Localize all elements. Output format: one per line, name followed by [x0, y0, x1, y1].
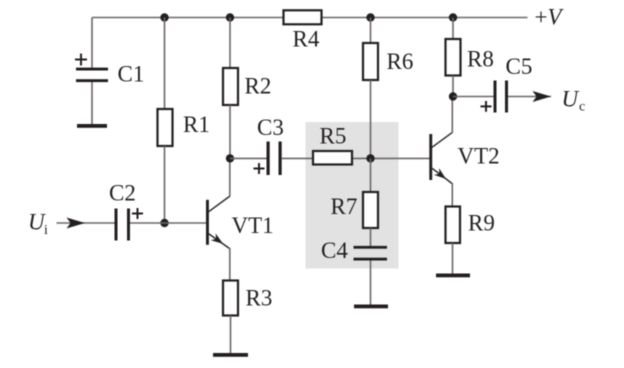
- wire R2 top lead: [229, 18, 231, 69]
- ground (R3): [213, 353, 248, 357]
- resistor R2: [223, 68, 238, 105]
- svg-text:i: i: [44, 223, 48, 238]
- resistor R5: [313, 151, 352, 165]
- label C3: [257, 115, 284, 140]
- wire R3 bottom lead: [230, 316, 232, 354]
- wire R6 bottom lead: [370, 80, 372, 158]
- node junction VT1 base / R1: [160, 219, 168, 227]
- ground (C4): [354, 305, 388, 309]
- resistor R7: [363, 192, 378, 228]
- label C1: [118, 62, 145, 87]
- svg-text:U: U: [562, 87, 580, 112]
- ground (R9): [436, 274, 470, 278]
- label R7: [331, 194, 358, 219]
- wire VT1 collector up: [229, 158, 231, 196]
- wire VT1 emitter down: [229, 248, 231, 281]
- svg-text:R1: R1: [183, 112, 210, 137]
- label VT2: [458, 144, 500, 169]
- label R3: [246, 286, 273, 311]
- resistor R6: [363, 43, 378, 80]
- svg-text:R5: R5: [320, 124, 347, 149]
- svg-text:R3: R3: [246, 286, 273, 311]
- wire R7 top lead: [370, 158, 372, 192]
- wire R6 top lead: [370, 18, 372, 44]
- svg-text:C1: C1: [118, 62, 145, 87]
- label R9: [468, 211, 495, 236]
- wire R1 bottom lead: [164, 146, 166, 223]
- svg-text:C5: C5: [506, 54, 533, 79]
- wire C4 bottom lead: [370, 261, 372, 305]
- node junction R5/R6/R7: [366, 154, 374, 162]
- svg-text:R2: R2: [245, 74, 272, 99]
- label C2: [109, 181, 136, 206]
- svg-text:c: c: [579, 100, 585, 115]
- label R2: [245, 74, 272, 99]
- svg-text:VT1: VT1: [232, 213, 274, 238]
- wire C3 to R5 and on to VT2 base: [282, 157, 430, 159]
- ground (C1): [77, 124, 107, 128]
- resistor R9: [446, 207, 461, 244]
- capacitor C3: [254, 142, 282, 176]
- label Uc: [562, 87, 586, 115]
- resistor R3: [223, 281, 238, 316]
- wire C1 top lead: [91, 18, 93, 69]
- label VT1: [232, 213, 274, 238]
- label R6: [387, 49, 414, 74]
- wire R9 bottom lead: [452, 243, 454, 274]
- transistor VT1: [206, 196, 230, 249]
- wire R7 to C4: [370, 228, 372, 246]
- node junction R6/top rail: [366, 13, 374, 21]
- label R5: [320, 124, 347, 149]
- label C5: [506, 54, 533, 79]
- svg-text:+V: +V: [535, 5, 565, 30]
- node junction R1/top rail: [160, 13, 168, 21]
- capacitor C2: [115, 208, 144, 241]
- svg-text:R7: R7: [331, 194, 358, 219]
- node junction R2/top rail: [226, 13, 234, 21]
- svg-text:R6: R6: [387, 49, 414, 74]
- resistor R1: [158, 109, 173, 146]
- wire VT2 collector up: [451, 97, 453, 133]
- label R8: [467, 47, 494, 72]
- wire top supply rail: [92, 17, 528, 19]
- capacitor C5: [481, 81, 509, 113]
- output arrow: [508, 91, 551, 102]
- svg-text:R9: R9: [468, 211, 495, 236]
- wire R8 top lead: [452, 18, 454, 40]
- label Ui: [28, 210, 48, 239]
- wire node to C5: [453, 96, 494, 98]
- wire R8 bottom lead: [452, 76, 454, 97]
- capacitor C4: [354, 246, 388, 261]
- wire C1 bottom lead: [91, 82, 93, 124]
- wire R2 bottom lead: [229, 105, 231, 158]
- svg-text:C4: C4: [321, 238, 348, 263]
- node junction R8/top rail: [449, 13, 457, 21]
- label C4: [321, 238, 348, 263]
- svg-text:R8: R8: [467, 47, 494, 72]
- transistor VT2: [429, 132, 452, 183]
- resistor R8: [446, 39, 461, 76]
- svg-text:C3: C3: [257, 115, 284, 140]
- wire C2 to base node: [130, 222, 206, 224]
- input arrow: [57, 218, 115, 229]
- label R4: [293, 27, 320, 52]
- svg-text:R4: R4: [293, 27, 320, 52]
- wire R1 top lead: [164, 18, 166, 110]
- wire node to C3: [230, 157, 267, 159]
- wire VT2 emitter down: [451, 183, 453, 207]
- capacitor C1: [75, 54, 108, 83]
- shaded region (R5/R7/C4 highlight): [306, 122, 399, 269]
- label +V: [535, 5, 565, 30]
- svg-text:VT2: VT2: [458, 144, 500, 169]
- node junction R8/C5/collector: [449, 92, 457, 100]
- node junction C3/collector: [226, 154, 234, 162]
- svg-text:C2: C2: [109, 181, 136, 206]
- resistor R4: [284, 10, 322, 24]
- label R1: [183, 112, 210, 137]
